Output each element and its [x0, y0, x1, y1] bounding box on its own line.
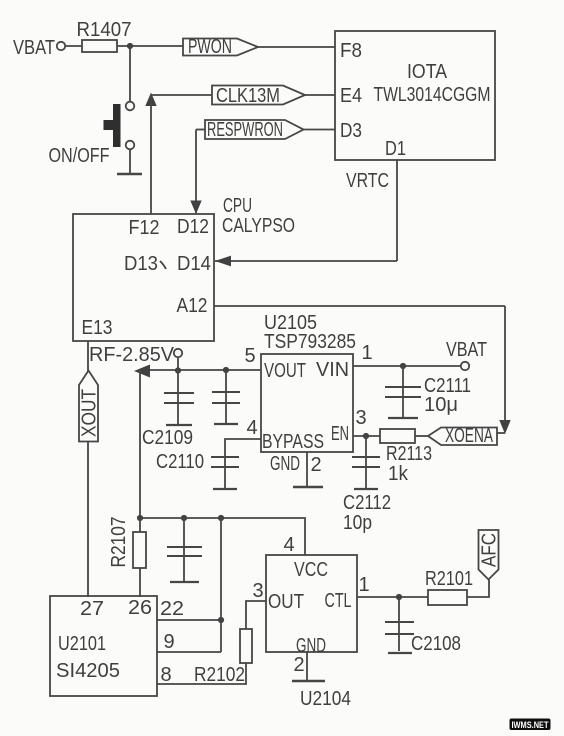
svg-text:OUT: OUT [268, 591, 304, 613]
wire [504, 306, 506, 421]
wire BYPASS [225, 439, 261, 457]
wire pin22 [157, 619, 221, 621]
wire [66, 45, 83, 47]
wire [304, 129, 336, 131]
wire [117, 45, 183, 47]
resistor R2102 [194, 629, 252, 686]
label U2105 [264, 312, 356, 353]
wire [129, 46, 131, 102]
wire to F12 [150, 95, 152, 214]
arrow down [499, 420, 510, 434]
svg-text:C2110: C2110 [156, 451, 204, 473]
ground [292, 680, 325, 682]
svg-text:26: 26 [128, 597, 152, 619]
svg-text:1: 1 [358, 574, 369, 596]
capacitor C2110 [156, 451, 239, 488]
svg-text:RESPWRON: RESPWRON [207, 119, 283, 141]
svg-text:R2102: R2102 [194, 664, 245, 686]
resistor R1407 [77, 19, 132, 52]
svg-text:VCC: VCC [294, 559, 328, 581]
IC U1 IOTA TWL3014CGGM [335, 31, 495, 160]
wire to D12 [195, 130, 197, 214]
svg-text:1k: 1k [388, 463, 409, 485]
svg-text:R2113: R2113 [386, 443, 432, 465]
wire GND [306, 452, 308, 486]
svg-text:A12: A12 [177, 295, 208, 317]
arrow down [190, 201, 201, 215]
wire A12 [214, 305, 505, 307]
wire [305, 94, 335, 96]
svg-text:U2101: U2101 [58, 633, 106, 655]
ground [117, 173, 142, 175]
wire [177, 357, 179, 371]
svg-text:XOUT: XOUT [79, 389, 101, 437]
svg-text:D14: D14 [177, 253, 211, 275]
svg-text:SI4205: SI4205 [56, 660, 120, 682]
label CPU CALYPSO [222, 195, 295, 237]
svg-text:10p: 10p [343, 512, 372, 534]
terminal VBAT right [461, 362, 469, 370]
capacitor C2108 [385, 597, 461, 655]
svg-text:D1: D1 [385, 138, 406, 160]
ground [214, 423, 238, 425]
wire [246, 601, 266, 629]
net tag PWON [183, 36, 258, 58]
svg-text:TSP793285: TSP793285 [264, 331, 356, 353]
svg-text:22: 22 [160, 598, 184, 620]
svg-text:F8: F8 [340, 40, 362, 62]
svg-text:EN: EN [331, 423, 349, 445]
svg-text:GND: GND [270, 453, 300, 475]
svg-text:3: 3 [252, 580, 263, 602]
ground [166, 424, 192, 426]
svg-text:ON/OFF: ON/OFF [49, 145, 110, 167]
svg-text:D3: D3 [340, 120, 362, 142]
switch ON/OFF [49, 102, 135, 167]
wire VIN [353, 365, 461, 367]
wire CLK13M [151, 94, 212, 96]
wire rail [140, 518, 305, 555]
wire [220, 518, 222, 652]
svg-text:E13: E13 [82, 317, 113, 339]
svg-text:CLK13M: CLK13M [216, 85, 280, 107]
wire [196, 129, 205, 131]
svg-text:C2109: C2109 [142, 427, 193, 449]
junction [396, 594, 402, 600]
capacitor C2106 [167, 518, 202, 581]
wire XOUT to pin27 [87, 442, 89, 598]
wire GND [306, 652, 308, 680]
svg-text:1: 1 [361, 342, 372, 364]
wire pin8 [157, 663, 246, 684]
IC U2104 [266, 555, 357, 657]
svg-text:3: 3 [355, 407, 366, 429]
net tag XOENA [428, 425, 497, 447]
ground [170, 581, 199, 583]
svg-text:U2104: U2104 [300, 688, 351, 710]
net tag XOUT [79, 371, 101, 442]
wire RF rail [140, 369, 261, 371]
wire VRTC to CPU [215, 260, 397, 262]
svg-text:RF-2.85V: RF-2.85V [89, 344, 175, 366]
wire EN [353, 435, 380, 437]
arrow left [215, 256, 231, 267]
svg-text:VOUT: VOUT [264, 360, 306, 382]
svg-text:10μ: 10μ [424, 394, 458, 416]
svg-text:AFC: AFC [479, 533, 501, 567]
svg-text:CPU: CPU [223, 195, 252, 217]
svg-text:R2101: R2101 [425, 568, 473, 590]
svg-text:2: 2 [293, 654, 304, 676]
svg-text:PWON: PWON [188, 36, 232, 58]
junction [137, 515, 143, 521]
svg-text:8: 8 [160, 664, 171, 686]
arrow up [145, 93, 156, 107]
svg-text:4: 4 [283, 534, 294, 556]
wire pin9 [157, 651, 221, 653]
svg-text:IWMS.NET: IWMS.NET [512, 720, 549, 731]
capacitor C2109 [142, 370, 194, 449]
wire [415, 435, 428, 437]
net tag AFC [479, 530, 501, 580]
IC U2105 TSP793285 [261, 354, 353, 475]
svg-text:R2107: R2107 [108, 517, 130, 568]
junction [400, 363, 406, 369]
IC U2101 SI4205 [50, 596, 157, 696]
svg-text:4: 4 [246, 417, 257, 439]
svg-text:TWL3014CGGM: TWL3014CGGM [374, 84, 491, 106]
net tag CLK13M [212, 85, 305, 107]
arrow left [134, 365, 150, 378]
svg-text:IOTA: IOTA [407, 61, 448, 83]
svg-text:VIN: VIN [316, 359, 349, 381]
svg-text:VRTC: VRTC [346, 170, 389, 192]
watermark [510, 719, 551, 731]
svg-text:D13: D13 [124, 253, 158, 275]
svg-text:F12: F12 [129, 217, 160, 239]
svg-text:C2112: C2112 [343, 492, 391, 514]
svg-text:C2108: C2108 [411, 633, 461, 655]
svg-text:XOENA: XOENA [445, 425, 493, 447]
ground [354, 488, 378, 490]
wire CTL [357, 596, 428, 598]
junction [218, 617, 224, 623]
capacitor C2112 [343, 436, 391, 534]
terminal RF-2.85V [174, 349, 182, 357]
svg-text:9: 9 [163, 631, 174, 653]
svg-text:VBAT: VBAT [446, 339, 487, 361]
wire [139, 370, 141, 518]
svg-text:D12: D12 [177, 216, 209, 238]
wire [258, 46, 335, 48]
ground [388, 652, 412, 654]
svg-text:R1407: R1407 [77, 19, 132, 41]
net tag RESPWRON [205, 119, 304, 141]
wire [497, 432, 505, 434]
IC U2 CPU CALYPSO [73, 214, 214, 341]
wire [129, 150, 131, 174]
junction [175, 367, 181, 373]
svg-text:2: 2 [310, 454, 321, 476]
junction [363, 433, 369, 439]
ground [388, 417, 418, 419]
junction [181, 515, 187, 521]
svg-text:E4: E4 [340, 85, 362, 107]
junction [127, 43, 133, 49]
ground [213, 488, 237, 490]
svg-text:CALYPSO: CALYPSO [222, 215, 295, 237]
resistor R2113 [380, 429, 432, 485]
svg-text:5: 5 [244, 345, 255, 367]
terminal VBAT [57, 42, 65, 50]
ground [293, 486, 323, 488]
svg-text:VBAT: VBAT [13, 37, 55, 59]
svg-text:BYPASS: BYPASS [262, 431, 324, 453]
wire E13 [87, 341, 89, 371]
svg-text:CTL: CTL [325, 590, 352, 612]
wire D1 down [396, 160, 398, 261]
capacitor C2111 [385, 366, 471, 417]
junction [218, 515, 224, 521]
junction [223, 367, 229, 373]
resistor R2101 [425, 568, 473, 605]
resistor R2107 [108, 517, 146, 598]
wire [467, 580, 489, 598]
svg-text:27: 27 [80, 598, 104, 620]
capacitor C2113 [212, 370, 240, 423]
